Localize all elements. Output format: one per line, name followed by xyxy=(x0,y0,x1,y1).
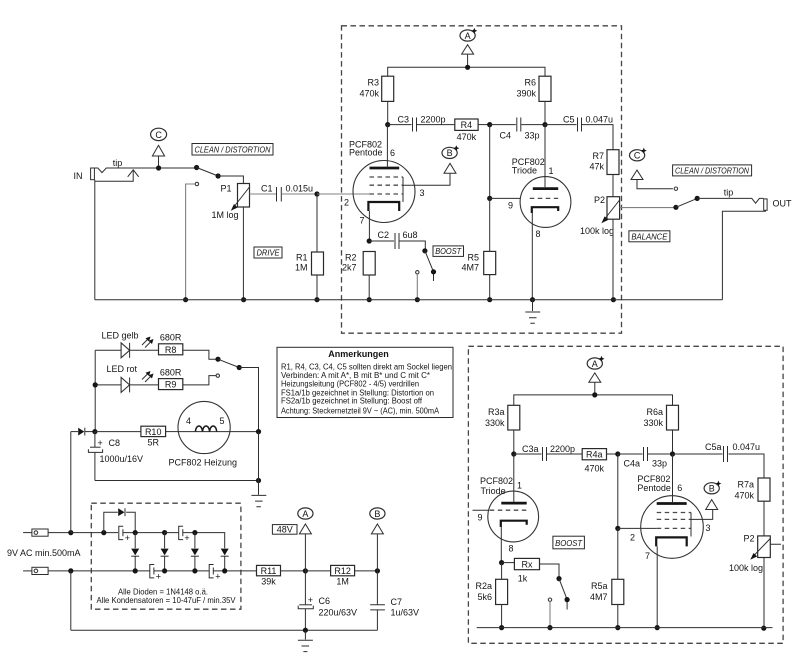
node A xyxy=(298,508,313,571)
resistor R10 xyxy=(141,426,178,447)
svg-text:C8: C8 xyxy=(109,438,121,448)
svg-text:R9: R9 xyxy=(165,380,177,390)
node junction B rail xyxy=(375,568,380,573)
svg-text:1M log: 1M log xyxy=(211,210,238,220)
label CLEAN/DISTORTION right xyxy=(673,165,752,176)
resistor R12 xyxy=(305,565,377,586)
svg-text:tip: tip xyxy=(724,187,734,197)
switch FS1a xyxy=(194,165,243,184)
svg-text:9V AC min.500mA: 9V AC min.500mA xyxy=(7,548,81,558)
node junction boost drop xyxy=(415,297,420,302)
node junction C tap xyxy=(156,165,161,170)
OUT jack xyxy=(722,199,792,300)
svg-text:390k: 390k xyxy=(516,89,536,99)
input connector J2 xyxy=(23,567,91,574)
tube U1 pentode PCF802 xyxy=(349,125,450,241)
capacitor Cp2 xyxy=(165,526,225,548)
svg-text:+: + xyxy=(184,533,189,543)
node junction R3/C3/pin6 xyxy=(385,122,390,127)
svg-text:BALANCE: BALANCE xyxy=(631,232,668,241)
svg-text:C2: C2 xyxy=(377,230,389,240)
node C top left xyxy=(151,128,167,168)
capacitor C3a xyxy=(514,444,582,461)
resistor Rx xyxy=(502,558,559,583)
node junction P2 bottom rail xyxy=(611,297,616,302)
svg-text:CLEAN / DISTORTION: CLEAN / DISTORTION xyxy=(195,145,271,154)
svg-text:OUT: OUT xyxy=(773,199,793,209)
node A* top xyxy=(460,28,477,68)
svg-text:Anmerkungen: Anmerkungen xyxy=(328,349,389,359)
node junction R2 bottom xyxy=(367,297,372,302)
wire heater line xyxy=(95,431,141,433)
svg-text:2: 2 xyxy=(630,533,635,543)
svg-text:R2: R2 xyxy=(345,253,357,263)
wire R4a junction xyxy=(607,453,618,455)
svg-text:C5a: C5a xyxy=(705,442,722,452)
resistor R9 xyxy=(159,368,183,390)
svg-text:CLEAN / DISTORTION: CLEAN / DISTORTION xyxy=(675,166,749,175)
svg-text:Alle Kondensatoren = 10-47uF /: Alle Kondensatoren = 10-47uF / min.35V xyxy=(97,596,237,605)
node junction P1 bottom xyxy=(241,297,246,302)
node B* xyxy=(442,145,459,173)
resistor R4 xyxy=(455,119,478,142)
input connector J1 xyxy=(23,529,71,536)
svg-text:B: B xyxy=(447,148,453,158)
node junction pin8/Rx/R2a xyxy=(499,560,504,565)
svg-text:C6: C6 xyxy=(319,596,331,606)
node junction psu2 bottom xyxy=(133,568,138,573)
svg-text:470k: 470k xyxy=(585,464,605,474)
svg-text:+: + xyxy=(125,533,130,543)
switch FS2b open contact xyxy=(183,374,220,385)
tube heater PCF802 xyxy=(169,401,259,467)
svg-text:1M: 1M xyxy=(295,263,308,273)
svg-text:+: + xyxy=(156,571,161,581)
svg-text:Triode: Triode xyxy=(512,166,537,176)
resistor R1 xyxy=(295,194,324,300)
wire grid pin2 xyxy=(317,194,370,208)
svg-text:R12: R12 xyxy=(334,566,351,576)
channel 2 dashed box xyxy=(468,346,783,643)
svg-text:BOOST: BOOST xyxy=(435,247,462,256)
node junction R1 bottom xyxy=(314,297,319,302)
svg-text:LED gelb: LED gelb xyxy=(102,331,139,341)
svg-text:Pentode: Pentode xyxy=(349,147,383,157)
svg-text:1: 1 xyxy=(549,166,554,176)
svg-text:9: 9 xyxy=(478,513,483,523)
switch FS2a open contact xyxy=(416,271,419,300)
wire bottom rail ch1 xyxy=(95,299,723,301)
svg-text:8: 8 xyxy=(509,544,514,554)
svg-text:C4a: C4a xyxy=(623,459,640,469)
switch FS1b xyxy=(673,196,700,210)
svg-text:R4: R4 xyxy=(461,120,473,130)
svg-text:FS2a/1b gezeichnet in Stellung: FS2a/1b gezeichnet in Stellung: Boost of… xyxy=(281,397,423,406)
svg-text:R5a: R5a xyxy=(591,581,608,591)
svg-text:1: 1 xyxy=(517,481,522,491)
svg-text:tip: tip xyxy=(113,158,123,168)
node junction R4/C4/grid9 xyxy=(487,122,492,127)
svg-text:330k: 330k xyxy=(485,418,505,428)
resistor R4a xyxy=(582,449,606,474)
svg-text:0.047u: 0.047u xyxy=(733,442,761,452)
svg-text:5R: 5R xyxy=(147,438,159,448)
resistor R5a xyxy=(590,528,624,627)
node junction ground drop xyxy=(183,297,188,302)
svg-text:48V: 48V xyxy=(277,524,293,534)
svg-text:470k: 470k xyxy=(457,132,477,142)
node junction R2a bottom xyxy=(499,625,504,630)
wire tip OUT xyxy=(697,187,763,203)
notes box Anmerkungen xyxy=(277,347,453,417)
ground ch1 xyxy=(525,300,540,324)
resistor R6 xyxy=(516,76,551,124)
svg-text:220u/63V: 220u/63V xyxy=(319,608,358,618)
svg-text:4M7: 4M7 xyxy=(590,592,608,602)
svg-text:R11: R11 xyxy=(261,566,277,576)
node junction A* rail xyxy=(465,65,470,70)
wire PSU bottom rail xyxy=(71,629,378,631)
node junction psu3 top xyxy=(162,530,167,535)
label CLEAN/DISTORTION left xyxy=(192,144,273,156)
svg-text:1M: 1M xyxy=(336,577,349,587)
label BALANCE xyxy=(629,231,670,242)
capacitor C8 xyxy=(88,432,143,481)
node junction A rail xyxy=(303,568,308,573)
wire heater bottom rail xyxy=(95,432,261,495)
svg-text:C5: C5 xyxy=(563,115,575,125)
switch FS2a boost xyxy=(422,248,436,281)
svg-text:47k: 47k xyxy=(589,162,604,172)
svg-text:7: 7 xyxy=(645,551,650,561)
node junction C8 top xyxy=(92,429,97,434)
diode D4 psu xyxy=(191,533,199,571)
svg-text:0.047u: 0.047u xyxy=(586,115,614,125)
svg-text:C1: C1 xyxy=(261,184,273,194)
label 48V xyxy=(272,524,297,534)
svg-text:DRIVE: DRIVE xyxy=(257,249,281,258)
node junction boost drop ch2 xyxy=(547,625,552,630)
svg-text:6: 6 xyxy=(677,483,682,493)
node junction J1 xyxy=(68,432,73,536)
svg-text:+: + xyxy=(308,595,313,605)
node A* ch2 xyxy=(587,356,604,395)
svg-text:B: B xyxy=(374,509,380,519)
svg-text:33p: 33p xyxy=(525,131,540,141)
diode D1 psu xyxy=(104,508,135,532)
node junction psu3 bottom xyxy=(162,568,167,573)
svg-text:R3a: R3a xyxy=(488,407,505,417)
node junction R3a/C3a xyxy=(511,451,516,456)
resistor R6a xyxy=(643,405,678,454)
svg-text:R2a: R2a xyxy=(475,581,492,591)
diode D3 psu xyxy=(161,533,169,571)
svg-text:100k log: 100k log xyxy=(580,226,614,236)
svg-text:R7a: R7a xyxy=(737,480,754,490)
svg-text:330k: 330k xyxy=(643,418,663,428)
node C* xyxy=(630,148,673,189)
svg-text:33p: 33p xyxy=(652,459,667,469)
svg-text:R3: R3 xyxy=(367,78,379,88)
tube U2 triode PCF802 xyxy=(512,125,571,300)
svg-text:5k6: 5k6 xyxy=(477,592,492,602)
resistor R2a xyxy=(475,563,507,628)
capacitor C7 xyxy=(370,571,419,630)
svg-text:+: + xyxy=(215,571,220,581)
switch FS2a2 open contact xyxy=(548,598,551,628)
label BOOST ch2 xyxy=(553,536,585,549)
label 9V AC xyxy=(7,548,81,558)
capacitor C5 xyxy=(545,115,613,150)
svg-text:Heizungsleitung (PCF802 - 4/5): Heizungsleitung (PCF802 - 4/5) verdrille… xyxy=(281,380,419,389)
capacitor C4 xyxy=(490,118,545,141)
resistor R5 xyxy=(461,198,495,299)
svg-text:C3: C3 xyxy=(397,115,409,125)
node junction psu4 bottom xyxy=(192,568,197,573)
wire LED left rail xyxy=(93,350,98,431)
svg-text:R1: R1 xyxy=(296,253,308,263)
node junction psu4 top xyxy=(192,530,197,535)
label BOOST ch1 xyxy=(433,246,464,257)
svg-text:2200p: 2200p xyxy=(550,444,575,454)
tube U4 pentode PCF802 ch2 xyxy=(637,454,712,628)
svg-text:PCF802: PCF802 xyxy=(480,476,513,486)
svg-text:R6a: R6a xyxy=(646,407,663,417)
svg-text:7: 7 xyxy=(360,216,365,226)
wire grid pin9 xyxy=(487,125,520,211)
svg-text:R10: R10 xyxy=(145,427,162,437)
resistor R7a xyxy=(734,478,770,536)
svg-text:LED rot: LED rot xyxy=(107,364,138,374)
svg-text:C3a: C3a xyxy=(522,444,539,454)
svg-text:P2: P2 xyxy=(594,195,605,205)
wire R4 to junction xyxy=(478,124,490,126)
PSU dashed box xyxy=(91,503,241,609)
resistor R8 xyxy=(159,333,216,360)
svg-text:2k7: 2k7 xyxy=(342,263,357,273)
svg-text:8: 8 xyxy=(536,229,541,239)
svg-text:A: A xyxy=(465,31,471,41)
wire PSU top row xyxy=(71,532,118,534)
switch FS2b xyxy=(215,357,258,432)
svg-text:2: 2 xyxy=(344,198,349,208)
node B xyxy=(370,508,385,571)
capacitor C3 xyxy=(388,115,455,132)
resistor R7 xyxy=(589,150,619,197)
svg-text:IN: IN xyxy=(74,171,83,181)
potentiometer P2a xyxy=(729,534,781,629)
svg-text:R8: R8 xyxy=(165,345,177,355)
svg-text:C7: C7 xyxy=(391,597,403,607)
node junction R5a bottom xyxy=(615,625,620,630)
wire PSU bottom row xyxy=(91,570,256,572)
capacitor C2 xyxy=(369,230,425,251)
node junction heater right xyxy=(256,429,261,434)
svg-text:Rx: Rx xyxy=(522,560,533,570)
node junction cathode ground xyxy=(530,297,535,302)
svg-text:4: 4 xyxy=(186,416,191,426)
svg-text:0.015u: 0.015u xyxy=(286,184,314,194)
svg-text:6: 6 xyxy=(390,148,395,158)
svg-text:A: A xyxy=(302,509,308,519)
label DRIVE xyxy=(254,247,282,258)
resistor R3a xyxy=(485,405,520,454)
LED D_rot xyxy=(95,364,158,392)
svg-text:Pentode: Pentode xyxy=(637,483,671,493)
resistor R2 xyxy=(342,252,375,300)
resistor R11 xyxy=(257,565,306,586)
node junction J2 xyxy=(68,568,73,630)
ground heater xyxy=(251,495,266,506)
svg-text:470k: 470k xyxy=(734,491,754,501)
svg-text:1k: 1k xyxy=(518,574,528,584)
node B* ch2 xyxy=(704,481,721,510)
node junction pin7/C2/R2 xyxy=(367,238,372,243)
wire bottom rail ch2 xyxy=(477,627,773,629)
diode D5 psu xyxy=(221,549,229,571)
svg-text:C: C xyxy=(155,130,162,140)
node junction C1/R1/grid xyxy=(314,191,319,196)
channel 1 dashed box xyxy=(342,26,622,333)
node junction psu1 xyxy=(101,530,106,535)
svg-text:R6: R6 xyxy=(524,78,536,88)
node junction R5 bottom xyxy=(487,297,492,302)
tube U3 triode PCF802 ch2 xyxy=(473,454,539,563)
svg-text:R7: R7 xyxy=(592,151,604,161)
switch FS2a2 boost ch2 xyxy=(556,576,569,610)
svg-text:A: A xyxy=(592,359,598,369)
svg-text:P2: P2 xyxy=(743,534,754,544)
node junction psu5 bottom xyxy=(222,568,227,573)
node junction pin7 bottom xyxy=(655,625,660,630)
capacitor C5a xyxy=(673,442,765,478)
capacitor C6 xyxy=(298,571,357,630)
svg-text:470k: 470k xyxy=(359,89,379,99)
capacitor Cp3 xyxy=(150,565,161,582)
wire supply rail ch1 xyxy=(388,67,545,76)
svg-text:9: 9 xyxy=(508,201,513,211)
svg-text:Triode: Triode xyxy=(481,486,506,496)
wire supply rail ch2 xyxy=(514,395,673,405)
svg-text:C4: C4 xyxy=(499,131,511,141)
node junction psu2 xyxy=(133,530,138,535)
capacitor C4a xyxy=(618,447,673,469)
diode D2 psu xyxy=(131,533,139,571)
svg-text:R1, R4, C3, C4, C5 sollten dir: R1, R4, C3, C4, C5 sollten direkt am Soc… xyxy=(281,362,452,371)
capacitor Cp1 xyxy=(119,526,165,543)
node junction P2a bottom xyxy=(761,626,766,631)
node junction C6 bottom xyxy=(303,628,308,640)
svg-text:R4a: R4a xyxy=(586,450,603,460)
ground psu xyxy=(298,640,313,651)
resistor R3 xyxy=(359,76,393,124)
svg-text:5: 5 xyxy=(220,416,225,426)
svg-text:C: C xyxy=(634,151,641,161)
node junction A* rail ch2 xyxy=(592,392,597,397)
node junction R4a/C4a/grid2 xyxy=(615,451,620,456)
svg-text:3: 3 xyxy=(420,188,425,198)
svg-text:680R: 680R xyxy=(160,368,182,378)
svg-text:2200p: 2200p xyxy=(421,115,446,125)
potentiometer P2 xyxy=(580,195,676,300)
potentiometer P1 xyxy=(211,184,276,300)
wire grid pin2 ch2 xyxy=(615,454,657,543)
label alle dioden xyxy=(97,587,237,605)
node junction R6a/C4a/pin6 xyxy=(670,451,675,456)
switch FS1b open contact xyxy=(674,187,677,190)
svg-text:680R: 680R xyxy=(160,333,182,343)
svg-text:1000u/16V: 1000u/16V xyxy=(100,454,144,464)
capacitor Cp4 xyxy=(209,565,220,582)
switch FS1a open contact xyxy=(186,182,199,299)
LED D_gelb xyxy=(95,331,158,358)
svg-text:6u8: 6u8 xyxy=(403,230,418,240)
svg-text:100k log: 100k log xyxy=(729,563,763,573)
svg-text:P1: P1 xyxy=(220,184,231,194)
node junction R6/C4/pin1 xyxy=(542,122,547,127)
svg-text:39k: 39k xyxy=(261,577,276,587)
svg-text:PCF802 Heizung: PCF802 Heizung xyxy=(169,458,238,468)
svg-text:4M7: 4M7 xyxy=(461,263,479,273)
svg-text:3: 3 xyxy=(706,523,711,533)
svg-text:BOOST: BOOST xyxy=(555,539,583,548)
svg-text:B: B xyxy=(709,484,715,494)
svg-text:1u/63V: 1u/63V xyxy=(391,608,420,618)
IN jack xyxy=(74,158,197,300)
diode D heater xyxy=(71,428,95,436)
svg-text:+: + xyxy=(98,438,103,448)
capacitor C1 xyxy=(261,184,317,202)
svg-text:R5: R5 xyxy=(467,253,479,263)
svg-text:Achtung: Steckernetzteil 9V ~: Achtung: Steckernetzteil 9V ~ (AC), min.… xyxy=(281,407,440,416)
